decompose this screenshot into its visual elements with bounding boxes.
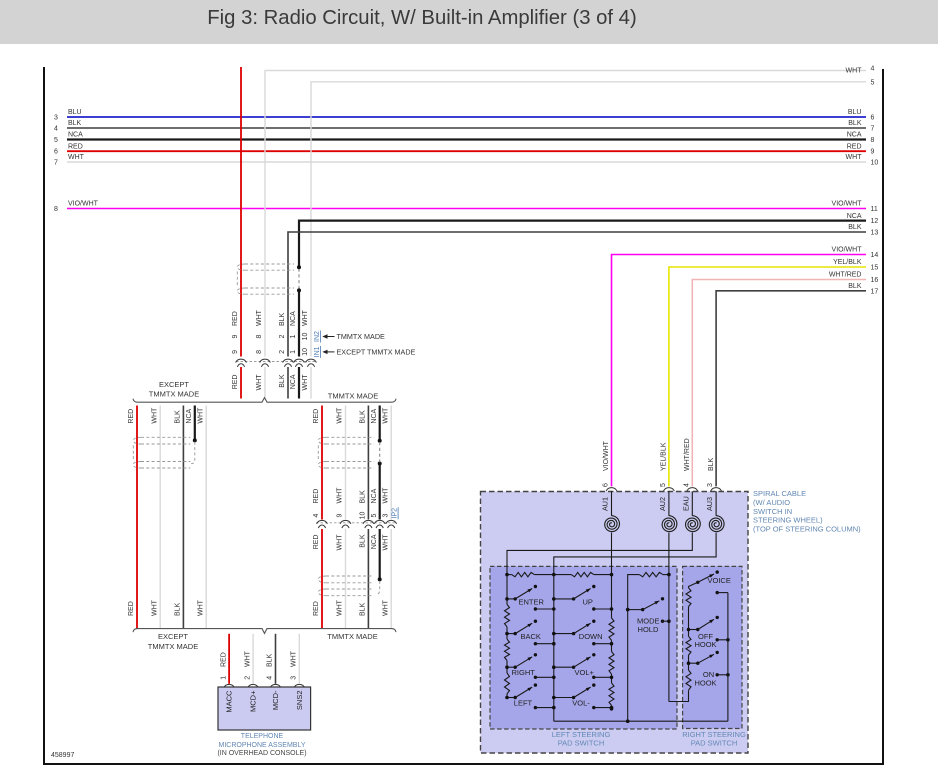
svg-text:VOICE: VOICE <box>708 576 731 585</box>
svg-text:RED: RED <box>313 535 320 550</box>
svg-text:2: 2 <box>279 350 286 354</box>
brace bottom merge <box>133 629 396 634</box>
svg-text:WHT: WHT <box>151 599 158 616</box>
connector IN chevrons x241 <box>236 359 247 362</box>
spiral coil AU2 <box>662 516 677 532</box>
resistor right column 2 <box>686 636 691 655</box>
svg-text:3: 3 <box>291 676 298 680</box>
svg-text:VIO/WHT: VIO/WHT <box>603 440 610 471</box>
svg-text:BLK: BLK <box>848 224 862 231</box>
svg-text:BLU: BLU <box>848 109 862 116</box>
svg-text:WHT: WHT <box>382 487 389 504</box>
svg-text:BLK: BLK <box>68 120 82 127</box>
wire WHT left group x160.2 <box>159 406 161 629</box>
wire 4-7 BLK <box>67 127 866 129</box>
wire 12 NCA corner <box>299 221 866 268</box>
wire WHT microphone pin 2 <box>252 634 254 684</box>
resistor row B-C <box>554 574 572 576</box>
frame left border <box>43 67 45 764</box>
wire NCA vertical below connector <box>298 367 300 399</box>
resistor column C 2 <box>609 652 614 675</box>
connector chevron microphone 3 <box>294 684 305 687</box>
switch MODE/HOLD <box>628 609 643 611</box>
svg-text:BLK: BLK <box>360 410 367 424</box>
svg-text:BLK: BLK <box>360 602 367 616</box>
svg-text:9: 9 <box>232 350 239 354</box>
switch DOWN <box>554 633 574 635</box>
connector IP2 chevrons RED <box>317 520 328 523</box>
svg-text:BLK: BLK <box>175 410 182 424</box>
wire AU1 down column C <box>611 533 613 609</box>
shield dashes right group pair 2 <box>326 461 374 463</box>
bottom rail <box>554 720 728 722</box>
switch ENTER <box>507 598 515 600</box>
connector IN chevrons x288 <box>283 359 294 362</box>
shield dashes top pair 2 <box>245 287 294 289</box>
svg-text:WHT: WHT <box>197 407 204 424</box>
svg-text:BLK: BLK <box>175 602 182 616</box>
svg-text:3: 3 <box>707 483 714 487</box>
svg-text:WHT: WHT <box>256 374 263 391</box>
svg-text:RED: RED <box>68 143 83 150</box>
svg-text:TMMTX MADE: TMMTX MADE <box>327 632 377 641</box>
wire into coil AU1 <box>611 491 613 516</box>
svg-text:WHT: WHT <box>151 407 158 424</box>
svg-text:BLK: BLK <box>848 120 862 127</box>
shield dashes left group NCA tail <box>191 442 195 464</box>
shield dashes right group left vertical <box>317 445 319 460</box>
svg-text:4: 4 <box>683 483 690 487</box>
connector chevron spiral 3 <box>711 488 722 491</box>
svg-text:RED: RED <box>232 375 239 390</box>
right box resistor column top stub <box>689 582 698 587</box>
svg-text:16: 16 <box>871 277 879 284</box>
wire 6-9 RED <box>67 150 866 152</box>
connector chevron microphone 2 <box>248 684 259 687</box>
svg-text:UP: UP <box>583 597 593 606</box>
svg-text:6: 6 <box>603 483 610 487</box>
svg-text:NCA: NCA <box>371 534 378 549</box>
wire RED right group lower <box>321 529 323 629</box>
wire WHT right group upper x391.2 <box>390 406 392 520</box>
svg-text:BACK: BACK <box>521 632 541 641</box>
wire WHT microphone pin 3 <box>298 634 300 684</box>
connector chevron spiral 5 <box>664 488 675 491</box>
left steering pad switch box <box>490 566 677 729</box>
svg-text:WHT: WHT <box>256 309 263 326</box>
resistor column C 1 <box>609 618 614 640</box>
svg-text:5: 5 <box>871 79 875 86</box>
connector chevron spiral 4 <box>687 488 698 491</box>
svg-text:5: 5 <box>54 137 58 144</box>
wire 16 WHT/RED to spiral cable <box>692 280 866 487</box>
svg-text:3: 3 <box>54 115 58 122</box>
shield dashes top pair 1 <box>245 263 294 265</box>
NCA dashed segment between junctions <box>298 269 300 290</box>
wire RED vertical below connector <box>240 367 242 399</box>
svg-text:TMMTX MADE: TMMTX MADE <box>337 332 386 341</box>
svg-text:13: 13 <box>871 230 879 237</box>
shield dashes left group pair 2 <box>141 461 190 463</box>
connector IP2 chevrons NCA <box>374 520 385 523</box>
svg-text:BLK: BLK <box>708 457 715 471</box>
wire NCA right group lower <box>379 529 381 579</box>
svg-text:MCD-: MCD- <box>271 690 280 710</box>
svg-text:8: 8 <box>256 334 263 338</box>
arrow EXCEPT TMMTX MADE <box>322 350 327 354</box>
svg-text:2: 2 <box>244 676 251 680</box>
wire 15 YEL/BLK to spiral cable <box>669 267 866 486</box>
wire 5-8 NCA <box>67 138 866 140</box>
svg-text:7: 7 <box>54 160 58 167</box>
svg-text:LEFT: LEFT <box>514 699 533 708</box>
arrow TMMTX MADE <box>322 334 327 338</box>
svg-text:VOL+: VOL+ <box>575 668 595 677</box>
shield dashes right lower pair 2 <box>326 588 372 590</box>
svg-text:SWITCH IN: SWITCH IN <box>753 507 792 516</box>
wire BLK microphone pin 4 <box>275 634 277 684</box>
svg-text:(W/ AUDIO: (W/ AUDIO <box>753 498 790 507</box>
svg-text:WHT: WHT <box>291 650 298 667</box>
svg-text:10: 10 <box>302 348 309 356</box>
svg-text:MODE: MODE <box>637 617 660 626</box>
svg-text:WHT: WHT <box>68 154 85 161</box>
svg-text:9: 9 <box>337 513 344 517</box>
switch ON HOOK <box>689 662 698 664</box>
svg-text:RED: RED <box>313 409 320 424</box>
svg-text:HOOK: HOOK <box>694 678 716 687</box>
svg-text:1: 1 <box>290 334 297 338</box>
wire 4 WHT corner <box>265 71 866 357</box>
wire 14 VIO/WHT to spiral cable <box>612 255 867 487</box>
svg-text:NCA: NCA <box>847 213 862 220</box>
junction dot NCA right group upper <box>378 439 382 443</box>
svg-text:WHT: WHT <box>382 407 389 424</box>
wire into coil EAU <box>691 491 693 516</box>
connector IN chevrons x265 <box>260 359 271 362</box>
svg-text:NCA: NCA <box>371 408 378 423</box>
connector chevron microphone 4 <box>270 684 281 687</box>
junction dot bottom rail mode <box>626 719 630 723</box>
shield dashes left group pair 1 <box>141 436 190 438</box>
svg-text:15: 15 <box>871 265 879 272</box>
frame right border <box>882 69 884 764</box>
svg-text:9: 9 <box>232 334 239 338</box>
svg-text:6: 6 <box>54 149 58 156</box>
wire BLK left group x183.4 <box>182 406 184 629</box>
svg-text:WHT: WHT <box>302 309 309 326</box>
svg-text:12: 12 <box>871 218 879 225</box>
shield dashes top pair 1 left cap <box>237 264 245 270</box>
connector chevron microphone 1 <box>224 684 235 687</box>
shield dashes right group pair 1 <box>326 436 374 438</box>
svg-text:AU2: AU2 <box>658 497 667 511</box>
telephone microphone assembly box <box>218 687 311 730</box>
wire EAU to column A <box>507 533 692 575</box>
wire 7-10 WHT <box>67 161 866 163</box>
switch OFF HOOK <box>689 629 698 631</box>
svg-text:EXCEPT: EXCEPT <box>159 380 189 389</box>
junction dot NCA left group <box>193 438 197 442</box>
svg-text:AU3: AU3 <box>705 497 714 511</box>
svg-text:WHT: WHT <box>382 534 389 551</box>
svg-text:RED: RED <box>313 601 320 616</box>
wire WHT right group lower <box>345 529 347 629</box>
wire 8-11 VIO/WHT <box>67 208 866 210</box>
svg-text:WHT/RED: WHT/RED <box>684 438 691 471</box>
svg-text:NCA: NCA <box>68 132 83 139</box>
resistor mode row <box>639 572 663 576</box>
wire into coil AU3 <box>715 491 717 516</box>
svg-text:(IN OVERHEAD CONSOLE): (IN OVERHEAD CONSOLE) <box>217 750 306 757</box>
wire 5 WHT corner <box>311 82 866 357</box>
svg-text:NCA: NCA <box>186 408 193 423</box>
svg-text:458997: 458997 <box>51 752 74 759</box>
svg-text:8: 8 <box>54 206 58 213</box>
svg-text:YEL/BLK: YEL/BLK <box>661 442 668 471</box>
svg-text:ENTER: ENTER <box>519 597 545 606</box>
svg-text:10: 10 <box>302 333 309 341</box>
mode section left rail <box>628 575 640 722</box>
svg-text:BLK: BLK <box>279 312 286 326</box>
brace top split <box>133 398 396 403</box>
wire BLK right group upper x368.4 <box>367 406 369 520</box>
svg-text:TMMTX MADE: TMMTX MADE <box>328 391 378 400</box>
resistor column A 3 <box>505 673 510 694</box>
column A wire <box>506 575 508 599</box>
junction dot column C bottom <box>610 707 614 711</box>
wire RED vertical <box>240 67 242 357</box>
wire 13 BLK corner <box>288 232 866 357</box>
resistor right column 1 <box>686 588 691 607</box>
header bar <box>0 0 938 44</box>
shield dashes right lower NCA tail <box>376 581 380 594</box>
svg-text:PAD SWITCH: PAD SWITCH <box>691 738 738 747</box>
connector IP2 chevrons WHT <box>386 520 397 523</box>
svg-text:4: 4 <box>313 513 320 517</box>
svg-text:AU1: AU1 <box>601 497 610 511</box>
svg-text:SPIRAL CABLE: SPIRAL CABLE <box>753 489 806 498</box>
shield dashes left group left vertical <box>132 445 134 460</box>
svg-text:17: 17 <box>871 288 879 295</box>
connector chevron spiral 6 <box>606 488 617 491</box>
svg-text:YEL/BLK: YEL/BLK <box>833 259 862 266</box>
spiral coil AU3 <box>709 516 724 532</box>
svg-text:WHT: WHT <box>337 534 344 551</box>
wire WHT vertical x265 <box>264 367 266 399</box>
svg-text:4: 4 <box>871 66 875 73</box>
svg-text:MICROPHONE ASSEMBLY: MICROPHONE ASSEMBLY <box>218 742 305 749</box>
svg-text:BLU: BLU <box>68 109 82 116</box>
resistor column A 1 <box>505 604 510 626</box>
svg-text:WHT: WHT <box>846 67 863 74</box>
svg-text:BLK: BLK <box>848 283 862 290</box>
wire BLK right group lower <box>367 529 369 629</box>
svg-text:10: 10 <box>360 512 367 520</box>
wire RED right group upper x322 <box>321 406 323 520</box>
svg-text:4: 4 <box>54 126 58 133</box>
connector IP2 chevrons WHT <box>340 520 351 523</box>
svg-text:NCA: NCA <box>371 488 378 503</box>
connector IP2 chevrons BLK <box>363 520 374 523</box>
svg-text:6: 6 <box>871 115 875 122</box>
shield dashes right lower pair 1 <box>326 575 372 577</box>
wire WHT left group x206.2 <box>205 406 207 629</box>
svg-text:WHT: WHT <box>302 374 309 391</box>
svg-text:1: 1 <box>290 350 297 354</box>
svg-text:(TOP OF STEERING COLUMN): (TOP OF STEERING COLUMN) <box>753 524 861 533</box>
wire NCA right group mid <box>379 464 381 520</box>
svg-text:RED: RED <box>128 601 135 616</box>
svg-text:VIO/WHT: VIO/WHT <box>832 247 863 254</box>
svg-text:HOOK: HOOK <box>694 640 716 649</box>
switch UP <box>554 598 574 600</box>
svg-text:NCA: NCA <box>847 132 862 139</box>
right rail <box>727 593 729 722</box>
wire into coil AU2 <box>668 491 670 516</box>
connector IN dashed line <box>236 361 316 363</box>
switch VOL- <box>554 697 574 699</box>
svg-text:WHT: WHT <box>337 599 344 616</box>
svg-text:EXCEPT TMMTX MADE: EXCEPT TMMTX MADE <box>337 348 416 357</box>
wire BLK vertical x288 <box>287 367 289 399</box>
switch VOL+ <box>554 666 574 668</box>
shield dashes top left vertical <box>236 272 238 288</box>
junction dot NCA lower <box>297 288 301 292</box>
svg-text:DOWN: DOWN <box>579 632 603 641</box>
resistor column C 3 <box>609 683 614 706</box>
svg-text:WHT: WHT <box>382 599 389 616</box>
junction dots resistor row <box>505 573 509 577</box>
svg-text:1: 1 <box>220 676 227 680</box>
svg-text:14: 14 <box>871 252 879 259</box>
svg-text:RED: RED <box>847 143 862 150</box>
wire 17 BLK to spiral cable <box>716 291 866 487</box>
wire NCA left group x194.8 <box>194 406 196 441</box>
svg-text:STEERING WHEEL): STEERING WHEEL) <box>753 516 823 525</box>
wire RED microphone pin 1 <box>228 634 230 684</box>
svg-text:5: 5 <box>371 513 378 517</box>
wire WHT right group upper x345.5 <box>345 406 347 520</box>
wire NCA right group upper x379.7 <box>379 406 381 441</box>
svg-text:10: 10 <box>871 160 879 167</box>
svg-text:TMMTX MADE: TMMTX MADE <box>148 642 198 651</box>
svg-text:BLK: BLK <box>360 490 367 504</box>
NCA dashed segment right group <box>379 442 381 462</box>
wire 3-6 BLU <box>67 116 866 118</box>
svg-text:IP2: IP2 <box>391 508 398 519</box>
svg-text:Fig 3: Radio Circuit, W/ Built: Fig 3: Radio Circuit, W/ Built-in Amplif… <box>207 7 636 29</box>
svg-text:9: 9 <box>871 149 875 156</box>
svg-text:WHT: WHT <box>197 599 204 616</box>
junction dot NCA right group end <box>378 577 382 581</box>
svg-text:NCA: NCA <box>290 311 297 326</box>
svg-text:NCA: NCA <box>290 374 297 389</box>
connector IN chevrons x299 <box>294 359 305 362</box>
svg-text:5: 5 <box>660 483 667 487</box>
frame bottom border <box>43 763 884 765</box>
svg-text:8: 8 <box>256 350 263 354</box>
svg-text:BLK: BLK <box>279 374 286 388</box>
junction dot NCA right group lower <box>378 462 382 466</box>
svg-text:TELEPHONE: TELEPHONE <box>241 733 284 740</box>
column B wire <box>553 575 555 722</box>
svg-text:BLK: BLK <box>267 653 274 667</box>
svg-text:RIGHT: RIGHT <box>512 668 536 677</box>
svg-text:WHT: WHT <box>846 154 863 161</box>
wire AU2 down mode rail <box>668 533 670 702</box>
switch VOICE <box>696 581 699 584</box>
svg-text:RED: RED <box>220 652 227 667</box>
svg-text:HOLD: HOLD <box>638 625 659 634</box>
svg-text:WHT: WHT <box>337 487 344 504</box>
wire AU3 to column B <box>554 533 716 575</box>
svg-text:8: 8 <box>871 137 875 144</box>
svg-text:RED: RED <box>313 489 320 504</box>
svg-text:PAD SWITCH: PAD SWITCH <box>558 738 605 747</box>
switch LEFT <box>507 697 515 699</box>
resistor column A 2 <box>505 639 510 661</box>
shield dashes top pair 2 left cap <box>237 288 245 294</box>
svg-text:IN1: IN1 <box>314 346 321 357</box>
svg-text:VIO/WHT: VIO/WHT <box>68 201 99 208</box>
svg-text:EAU: EAU <box>681 496 690 511</box>
wire RED left group x137 <box>136 406 138 629</box>
svg-text:MACC: MACC <box>225 690 234 713</box>
svg-text:3: 3 <box>382 513 389 517</box>
svg-text:VIO/WHT: VIO/WHT <box>832 201 863 208</box>
junction dot NCA upper <box>297 265 301 269</box>
svg-text:IN2: IN2 <box>314 331 321 342</box>
svg-text:SNS2: SNS2 <box>295 691 304 711</box>
svg-text:WHT: WHT <box>337 407 344 424</box>
svg-text:RED: RED <box>232 311 239 326</box>
svg-text:2: 2 <box>279 334 286 338</box>
svg-text:4: 4 <box>267 676 274 680</box>
junction dot mode row AU2 <box>667 573 671 577</box>
switch RIGHT <box>507 666 515 668</box>
svg-text:7: 7 <box>871 126 875 133</box>
wire WHT vertical x311 <box>310 367 312 399</box>
right steering pad switch box <box>683 566 742 728</box>
svg-text:11: 11 <box>871 206 878 213</box>
svg-text:WHT: WHT <box>244 650 251 667</box>
mode to right resistor link <box>669 690 689 701</box>
resistor right column 3 <box>686 670 691 690</box>
wire WHT right group lower <box>390 529 392 629</box>
svg-text:TMMTX MADE: TMMTX MADE <box>149 389 199 398</box>
resistor row A-B <box>507 574 512 576</box>
spiral coil AU1 <box>605 516 620 532</box>
svg-text:WHT/RED: WHT/RED <box>829 272 862 279</box>
spiral cable outer box <box>481 492 749 754</box>
svg-text:VOL-: VOL- <box>572 699 590 708</box>
svg-text:MCD+: MCD+ <box>249 690 258 712</box>
svg-text:RED: RED <box>128 409 135 424</box>
svg-text:BLK: BLK <box>360 534 367 548</box>
connector IP2 dashed line <box>316 522 396 524</box>
spiral coil EAU <box>686 516 701 532</box>
svg-text:EXCEPT: EXCEPT <box>158 632 188 641</box>
switch BACK <box>507 633 515 635</box>
wire NCA vertical x299 upper <box>298 290 300 356</box>
connector IN chevrons x311 <box>306 359 317 362</box>
